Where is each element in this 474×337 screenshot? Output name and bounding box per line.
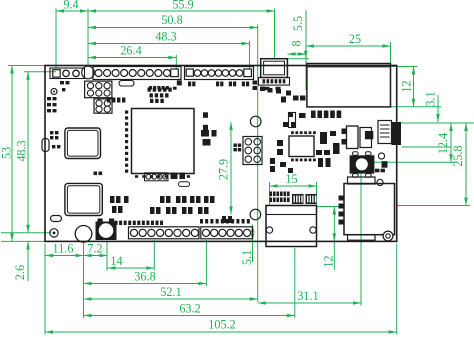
svg-text:12.4: 12.4 [436,133,450,154]
power select pad 1 [63,70,69,76]
svg-text:52.1: 52.1 [160,285,181,299]
dim extension x=107 (button) [106,242,108,271]
svg-text:12: 12 [321,255,335,267]
dim extension y=123 box top [398,122,474,124]
dimension 8 [288,53,307,55]
PCB board outline [45,66,397,242]
dimension 7.2 [84,255,108,257]
dim extension y=205.5 [397,205,470,207]
test point TP1 [51,89,57,95]
dim extension y=232.8 (hole BL) [1,232,51,234]
header block J7 [85,81,112,98]
dim extension line x=176.3 [175,55,177,69]
striped component pair [292,194,304,204]
svg-text:5.1: 5.1 [240,250,254,265]
dim extension y=147 box bottom [402,146,451,148]
dimension 55.9 [88,10,275,12]
ethernet controller U2 [289,136,314,157]
dim extension x=45 bottom [44,244,46,335]
svg-text:36.8: 36.8 [134,269,155,283]
dimension 2.6 [27,241,29,281]
module A1 [65,128,101,159]
mounting hole MR [250,116,261,127]
ICSP header J6 [243,137,262,165]
svg-text:7.2: 7.2 [87,241,102,255]
dim extension line x=56 (pad center) [55,9,57,69]
svg-text:25: 25 [349,32,361,46]
svg-text:9.4: 9.4 [63,0,78,11]
svg-text:5.5: 5.5 [291,16,305,31]
dimension 48.3 top [88,43,250,45]
dimension 52.1 [84,298,258,300]
dimension 25 [306,45,391,47]
svg-text:48.3: 48.3 [155,29,176,43]
DC barrel jack J12 [344,184,395,235]
dim extension x=206.4 [205,240,207,286]
dimension 15 [270,185,317,187]
dimension 14 [108,267,155,269]
mounting hole BR [383,231,393,241]
dimension 5.5 [288,58,309,60]
svg-text:3.1: 3.1 [423,91,437,106]
pad grid left [50,131,53,134]
svg-text:12: 12 [399,80,413,92]
dimension 27.9 [230,122,232,215]
pin header J2 (top row 2) [185,67,254,80]
pill C10 [51,216,62,222]
USB connector J3 [261,59,288,78]
svg-text:11.6: 11.6 [53,241,74,255]
dim extension y=66.5 eth top [391,66,418,68]
mounting hole TL [82,66,95,79]
mounting hole BL [75,226,92,243]
pads below USB [265,87,270,90]
dim segment y=206.5 left of jack [316,206,339,208]
dimension 63.2 [84,315,295,317]
pads between modules [94,172,98,176]
right edge connector J5 [378,121,392,144]
dim extension line x=390.5 (ethernet right) [390,42,392,64]
dim extension line x=88 (hole TL center) [87,9,89,66]
dimension 3.1 [437,95,439,122]
dimension 105.2 [45,331,397,333]
main MCU U1 (QFP) [132,109,195,174]
svg-text:55.9: 55.9 [172,0,193,11]
pin header J1 (top row 1) [93,67,181,80]
button SW2 [350,155,375,173]
header block J8 [94,99,112,113]
module A2 [65,183,102,215]
svg-text:26.4: 26.4 [120,43,141,57]
mounting hole BR2 [250,209,261,220]
dimension 5.1 [252,225,254,263]
svg-text:50.8: 50.8 [161,13,182,27]
SMD pads above J9 [110,221,113,225]
dim extension x=83.5 (hole BL) [83,242,85,318]
dim extension line x=306 (ethernet left) [305,10,307,90]
svg-text:14: 14 [110,254,122,268]
hole H1 [50,229,58,237]
passives cluster TL [47,97,51,100]
dimension 48.3 left [27,72,29,233]
svg-text:31.1: 31.1 [297,289,318,303]
dim extension line x=257.7 (holes column) [257,25,259,303]
pin header J9 (bottom row 1) [129,227,200,239]
power select pad 2 [73,70,79,76]
svg-text:27.9: 27.9 [216,159,230,180]
via pair right [378,153,384,159]
dimension 9.4 [56,10,88,12]
dimension 31.1 [258,302,361,304]
dim extension y=106.8 eth bottom [391,106,441,108]
dimension 12.4 [450,123,452,162]
RJ jack J11 [266,206,317,247]
pad grid above J11 [270,192,273,197]
svg-text:53: 53 [0,147,13,159]
dim extension x=269.5 (15 left) [269,182,271,206]
svg-text:2.6: 2.6 [13,265,27,280]
power select square pad [53,70,60,77]
dim extension x=316.5 (15 right) [316,182,318,206]
dim extension x=396.7 bottom [396,244,398,335]
pads right of SW2 [382,161,388,168]
pin header J10 (bottom row 2) [201,227,253,239]
dim extension y=162.3 jack top [361,161,455,163]
dimension 26.4 [88,57,176,59]
dimension 50.8 [88,27,258,29]
dimension 12 ethernet [413,67,415,107]
power select header box [50,68,85,79]
dimension 11.6 [45,255,84,257]
svg-text:25.8: 25.8 [451,145,465,166]
SMD pads above J10 [200,219,203,224]
dim extension y=65.5 (board top) [8,65,46,67]
dim extension x=154.3 [153,240,155,271]
dim extension y=71.8 (pin row) [24,71,56,73]
dim extension x=361 (button center) [360,164,362,306]
dimension 25.8 [465,123,467,206]
dimension 36.8 [84,283,207,285]
component D1 [42,139,49,152]
regulator U3 [347,126,359,149]
dim extension line x=249.5 [249,41,251,69]
dim extension x=294.8 [294,248,296,318]
svg-text:48.3: 48.3 [14,140,28,161]
scattered passives [188,82,191,87]
svg-text:8: 8 [289,40,303,46]
pads left of ICSP [234,144,237,147]
dim extension y=241.4 (board bottom) [1,240,45,242]
Ethernet jack J4 [307,64,391,107]
svg-text:63.2: 63.2 [179,301,200,315]
svg-text:15: 15 [285,172,297,186]
button SW1 [96,222,117,241]
svg-text:105.2: 105.2 [208,317,235,331]
dimension 12 jack [333,207,335,271]
dimension 53 [11,66,13,242]
dim extension line x=274.5 (USB center) [274,9,276,59]
